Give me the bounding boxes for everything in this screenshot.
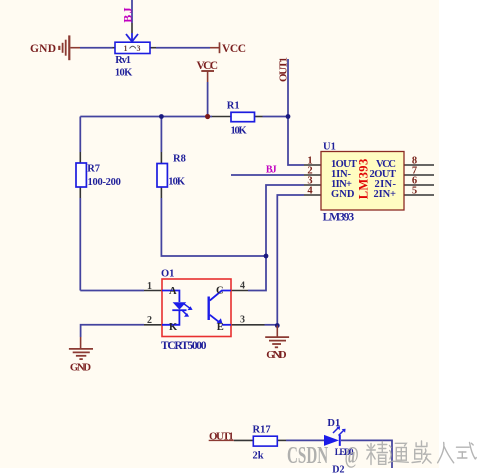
svg-text:OUT1: OUT1 [209,430,234,442]
svg-text:2k: 2k [253,450,264,461]
svg-text:10K: 10K [231,125,248,136]
svg-text:2IN+: 2IN+ [374,189,397,200]
svg-text:LM393: LM393 [357,159,371,200]
svg-text:100-200: 100-200 [88,177,121,188]
svg-text:GND: GND [30,43,56,55]
svg-text:R8: R8 [173,154,186,165]
svg-text:CSDN: CSDN [287,442,329,468]
svg-text:D2: D2 [332,464,344,475]
svg-text:A: A [169,286,177,297]
svg-text:VCC: VCC [197,60,219,72]
svg-text:GND: GND [266,349,286,361]
svg-text:2: 2 [147,315,152,326]
svg-text:1: 1 [124,44,128,53]
svg-text:R17: R17 [253,425,271,436]
svg-text:LM393: LM393 [323,212,355,224]
svg-text:OUT1: OUT1 [278,57,290,82]
svg-text:GND: GND [70,362,91,374]
svg-text:3: 3 [240,315,245,326]
svg-text:5: 5 [412,185,417,196]
svg-text:BJ: BJ [121,6,135,23]
svg-text:1: 1 [147,281,152,292]
svg-text:10K: 10K [168,177,186,188]
svg-text:4: 4 [240,281,245,292]
svg-text:R1: R1 [227,101,240,112]
svg-text:4: 4 [307,185,313,196]
svg-text:U1: U1 [323,141,336,152]
svg-text:VCC: VCC [222,43,246,55]
svg-text:D1: D1 [327,418,340,429]
svg-text:C: C [216,286,224,297]
svg-text:O1: O1 [161,269,174,280]
svg-text:E: E [217,322,224,333]
svg-text:TCRT5000: TCRT5000 [161,340,207,352]
svg-text:R7: R7 [87,164,100,175]
svg-text:10K: 10K [115,68,133,79]
svg-text:BJ: BJ [266,165,277,176]
svg-text:GND: GND [331,189,355,200]
svg-text:@: @ [345,442,359,468]
svg-text:Rv1: Rv1 [115,55,131,66]
svg-text:3: 3 [137,44,141,53]
svg-text:K: K [169,322,178,333]
